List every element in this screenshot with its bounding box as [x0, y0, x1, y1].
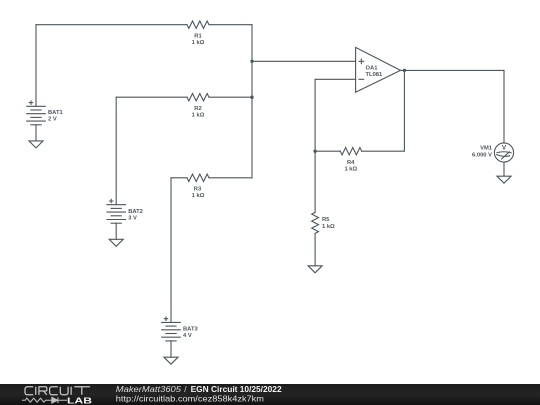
op-amp plus sign — [359, 59, 364, 64]
svg-text:1 kΩ: 1 kΩ — [344, 167, 357, 173]
svg-text:R5: R5 — [322, 217, 330, 223]
svg-text:MakerMatt3605: MakerMatt3605 — [116, 384, 182, 394]
ground under VM1 — [497, 176, 511, 183]
wire to op-amp + input — [252, 60, 356, 62]
wire BAT1 vertical — [35, 25, 37, 107]
svg-text:OA1: OA1 — [366, 66, 379, 72]
wire BAT1 to ground — [35, 125, 37, 141]
resistor R4 — [340, 148, 361, 155]
node feedback/R4 — [313, 150, 316, 153]
op-amp minus sign — [359, 78, 364, 80]
resistor R3 — [187, 174, 209, 181]
wire R3 row left — [171, 177, 187, 179]
BAT2 cell plates — [107, 204, 126, 206]
wire feedback from - input — [315, 79, 356, 212]
svg-text:1 kΩ: 1 kΩ — [192, 113, 205, 119]
ground under BAT3 — [164, 357, 178, 364]
svg-text:TL081: TL081 — [366, 72, 384, 78]
svg-text:2 V: 2 V — [48, 117, 57, 123]
BAT3 plus terminal mark — [164, 317, 167, 320]
wire R4 right up to output — [362, 70, 405, 151]
svg-text:1 kΩ: 1 kΩ — [192, 193, 205, 199]
resistor R2 — [187, 93, 209, 100]
BAT2 plus terminal mark — [110, 199, 113, 202]
wire BAT2 vertical — [115, 97, 117, 205]
voltmeter needle and scale — [497, 152, 511, 153]
wire R2 row left — [116, 96, 187, 98]
wire R3 to summing column — [209, 177, 252, 179]
wire BAT3 to ground — [170, 341, 172, 357]
svg-text:V: V — [502, 145, 507, 152]
BAT3 cell plates — [162, 321, 181, 323]
wire R2 to summing column — [209, 96, 252, 98]
wire BAT3 vertical — [170, 178, 172, 323]
logo CIRCUIT letters — [25, 387, 90, 395]
node output — [403, 69, 406, 72]
svg-text:1 kΩ: 1 kΩ — [322, 224, 335, 230]
op-amp U1 triangle — [356, 47, 401, 92]
BAT1 cell plates — [27, 105, 46, 107]
wire top horizontal from BAT1 to R1 — [36, 24, 187, 26]
resistor R5 vertical — [312, 212, 319, 233]
svg-text:http://circuitlab.com/cez858k4: http://circuitlab.com/cez858k4zk7km — [116, 394, 264, 404]
svg-text:BAT3: BAT3 — [183, 326, 198, 332]
svg-text:6.000 V: 6.000 V — [472, 153, 492, 159]
wire R1 to summing column — [209, 24, 252, 26]
svg-text:LAB: LAB — [67, 395, 92, 405]
node summing/+ — [250, 60, 253, 63]
svg-text:BAT1: BAT1 — [48, 110, 63, 116]
resistor R1 — [187, 21, 209, 28]
svg-text:R4: R4 — [347, 160, 355, 166]
voltmeter VM1 circle — [494, 143, 513, 162]
battery BAT1 — [27, 101, 46, 148]
ground under BAT2 — [109, 239, 123, 246]
wire summing column vertical — [251, 25, 253, 178]
node dots — [250, 60, 406, 153]
battery BAT3 — [162, 317, 181, 364]
svg-text:VM1: VM1 — [480, 146, 493, 152]
node summing/R2 — [250, 96, 253, 99]
svg-text:BAT2: BAT2 — [128, 209, 143, 215]
battery BAT2 — [107, 199, 126, 246]
wire BAT2 to ground — [115, 223, 117, 239]
wire R5 to ground — [314, 233, 316, 265]
svg-text:R1: R1 — [194, 34, 202, 40]
svg-text:EGN Circuit 10/25/2022: EGN Circuit 10/25/2022 — [191, 384, 282, 394]
ground under BAT1 — [29, 141, 43, 148]
svg-text:R2: R2 — [194, 106, 201, 112]
svg-text:R3: R3 — [194, 186, 202, 192]
wire op-amp output — [401, 69, 505, 71]
logo resistor-diode doodle — [22, 397, 67, 403]
BAT1 plus terminal mark — [29, 101, 32, 104]
ground under R5 — [308, 266, 322, 273]
wire voltmeter to ground — [503, 162, 505, 176]
svg-text:3 V: 3 V — [128, 215, 137, 221]
svg-text:1 kΩ: 1 kΩ — [192, 40, 205, 46]
wire to voltmeter — [503, 70, 505, 143]
wire R4 left — [315, 150, 340, 152]
svg-text:4 V: 4 V — [183, 333, 192, 339]
